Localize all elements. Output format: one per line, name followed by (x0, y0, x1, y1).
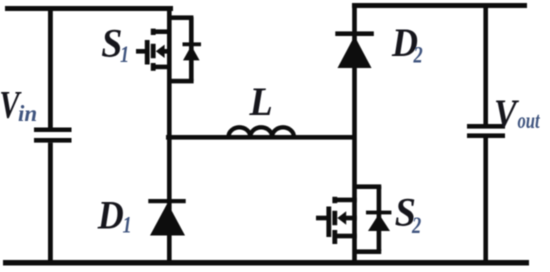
label S2 (395, 191, 421, 239)
svg-text:V: V (494, 93, 520, 137)
wire: S2 loop top (355, 184, 382, 189)
diode D2 cathode bar (335, 31, 374, 36)
S2 drain stub (335, 198, 357, 203)
S1 drain stub (153, 29, 171, 34)
S2 body stub (345, 216, 357, 221)
label Vout (494, 93, 541, 137)
wire: input branch upper segment (48, 8, 53, 128)
S1 gate lead (136, 49, 147, 54)
S1 body stub (163, 49, 171, 54)
wire: output branch upper segment (483, 5, 488, 125)
S2 gate lead (316, 216, 328, 221)
S1 source stub (153, 65, 171, 70)
S2 body diode cathode bar (366, 211, 391, 215)
capacitor Cout bottom plate (467, 133, 505, 138)
svg-text:2: 2 (413, 42, 423, 69)
S1 body diode cathode bar (183, 42, 202, 46)
wire: S1 loop bottom (169, 79, 194, 84)
wire: middle inductor rail (166, 135, 356, 140)
label S1 (101, 22, 129, 68)
capacitor Cout top plate (467, 124, 505, 129)
diode D2 triangle (338, 36, 372, 68)
wire: bottom common rail (3, 260, 529, 266)
svg-text:1: 1 (120, 41, 129, 68)
S1 body arrow (156, 45, 165, 58)
wire: S1 body-diode branch (189, 17, 194, 81)
svg-text:1: 1 (123, 212, 132, 239)
S2 body diode triangle (368, 214, 390, 231)
S1 gate bar (145, 40, 150, 65)
svg-text:2: 2 (411, 212, 421, 239)
S1 channel segment bottom (151, 63, 156, 71)
diode D1 triangle (150, 203, 185, 236)
label D1 (97, 194, 132, 238)
S1 channel segment top (151, 29, 156, 35)
capacitor Cin top plate (34, 128, 72, 133)
wire: S1 drain jog (167, 15, 193, 20)
wire: top-right output rail (352, 3, 527, 8)
wire: output branch lower segment (483, 138, 488, 262)
svg-text:D: D (97, 194, 124, 238)
wire: input branch lower segment (48, 143, 53, 263)
S2 source stub (335, 234, 357, 239)
S2 channel segment bottom (332, 230, 337, 244)
S2 channel segment top (332, 197, 337, 203)
transistor S2 (316, 184, 391, 254)
wire: S2 loop bottom (355, 249, 382, 254)
wire: top-left input rail (5, 6, 173, 11)
S2 channel segment middle (332, 211, 337, 225)
wire: right leg (D2, S2) (352, 5, 357, 261)
diode D1 cathode bar (148, 199, 185, 203)
transistor S1 (136, 15, 201, 83)
svg-text:in: in (18, 101, 37, 126)
capacitor Cin bottom plate (34, 138, 72, 143)
label D2 (391, 22, 423, 69)
wire: S2 body-diode branch (377, 186, 382, 251)
inductor L (229, 127, 294, 137)
svg-text:out: out (518, 108, 541, 133)
S2 gate bar (326, 207, 331, 238)
S2 body arrow (337, 211, 346, 224)
svg-text:L: L (249, 80, 273, 124)
S1 body diode triangle (183, 46, 200, 61)
label Vin (0, 83, 37, 126)
wire: left leg (S1 drain/source, D1 branch) (167, 10, 172, 260)
S1 channel segment middle (151, 44, 156, 58)
